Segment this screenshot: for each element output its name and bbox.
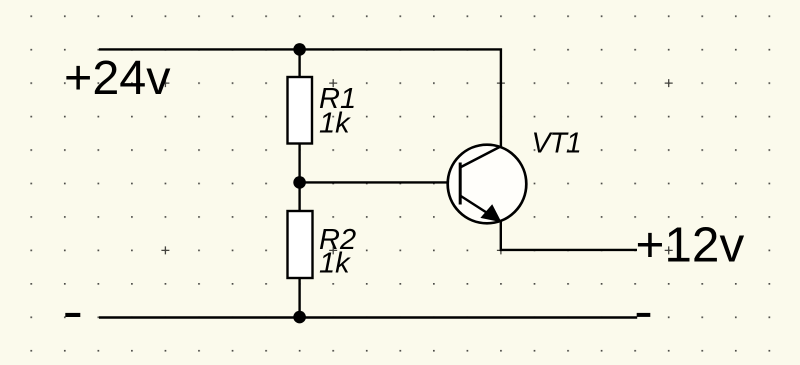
wire top rail from +24v to collector corner — [99, 49, 501, 147]
node B middle junction — [293, 176, 306, 189]
svg-text:VT1: VT1 — [532, 128, 581, 160]
transistor VT1 collector stroke — [460, 146, 502, 168]
svg-text:+24v: +24v — [64, 51, 171, 105]
wire emitter to +12v — [501, 220, 637, 250]
grid cross markers — [161, 79, 672, 254]
resistor R1 body — [288, 77, 313, 144]
minus terminal left — [65, 313, 80, 317]
wire bottom rail — [99, 316, 637, 318]
node A top junction — [293, 43, 306, 56]
minus terminal right — [637, 313, 651, 317]
svg-text:1k: 1k — [319, 108, 351, 140]
wire divider vertical through R1/R2 — [298, 49, 300, 317]
node C bottom junction — [293, 311, 306, 324]
resistor R2 body — [288, 211, 313, 278]
transistor VT1 emitter arrowhead — [480, 204, 501, 222]
wire base from divider node to transistor base — [300, 181, 459, 183]
svg-text:1k: 1k — [319, 248, 351, 280]
transistor VT1 emitter stroke — [460, 196, 501, 222]
svg-text:+12v: +12v — [636, 217, 745, 272]
transistor Q1 (VT1) body circle — [448, 145, 527, 224]
transistor VT1 base bar — [459, 163, 462, 205]
